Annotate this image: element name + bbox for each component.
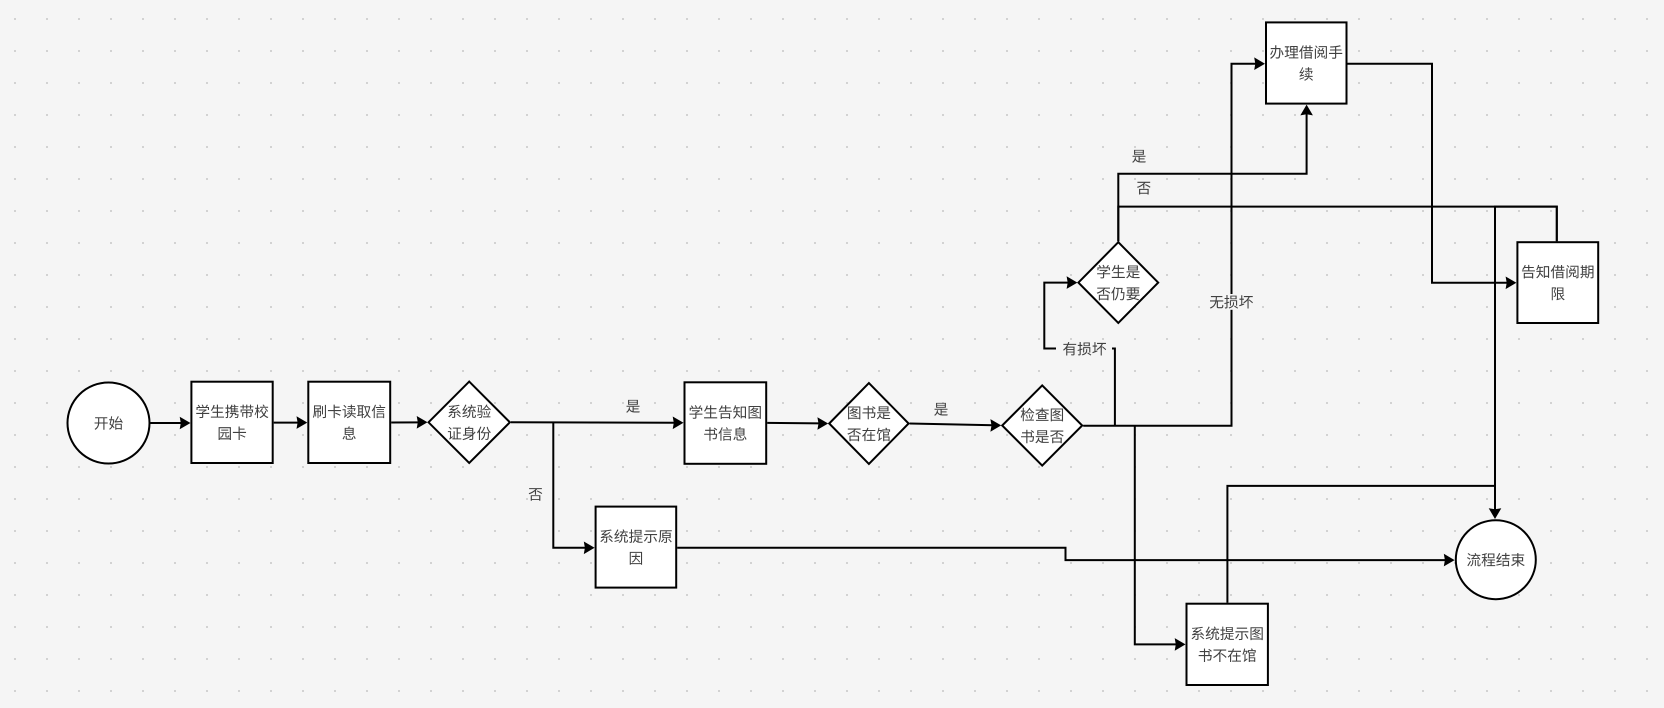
- wire edge 检查图书是否→学生是否仍要 (有损坏): [1044, 276, 1115, 425]
- wire edge 系统验证身份→学生告知图书信息 (是): [511, 417, 684, 430]
- wire edge 检查图书是否→办理借阅手续 (无损坏): [1083, 57, 1265, 425]
- wire edge 办理借阅手续→告知借阅期限: [1348, 64, 1517, 289]
- node process 学生告知图书信息: [685, 382, 767, 464]
- wire edge 告知借阅期限→流程结束: [1489, 207, 1557, 519]
- node process 学生携带校园卡: [191, 382, 272, 463]
- wire edge 刷卡读取信息→系统验证身份: [391, 416, 427, 429]
- node decision 图书是否在馆: [829, 383, 908, 464]
- node process 办理借阅手续: [1266, 22, 1347, 103]
- label 否 on edge 系统验证身份→系统提示原因: [529, 488, 543, 501]
- node decision 系统验证身份: [429, 382, 510, 463]
- wire edge 学生是否仍要→办理借阅手续 (是): [1118, 105, 1313, 242]
- node process 刷卡读取信息: [308, 382, 390, 463]
- node process 系统提示原因: [596, 507, 677, 588]
- wire edge 检查图书是否→系统提示图书不在馆: [1135, 426, 1186, 651]
- wire edge 系统提示图书不在馆→流程结束: [1227, 486, 1495, 603]
- label 否 on edge 学生是否仍要→告知借阅期限: [1137, 182, 1151, 195]
- wire edge 学生携带校园卡→刷卡读取信息: [274, 416, 308, 429]
- wire edge 学生告知图书信息→图书是否在馆: [767, 417, 828, 430]
- label 是 on edge 系统验证身份→学生告知图书信息: [626, 400, 640, 413]
- wire edge 开始→学生携带校园卡: [151, 417, 191, 430]
- node process 系统提示图书不在馆: [1187, 604, 1268, 685]
- label 有损坏 on edge 检查图书是否→学生是否仍要: [1056, 341, 1112, 358]
- node start circle 开始: [68, 383, 150, 464]
- wire edge 图书是否在馆→检查图书是否 (是): [910, 419, 1002, 432]
- node decision 学生是否仍要: [1078, 242, 1158, 323]
- node decision 检查图书是否(损坏): [1002, 385, 1082, 465]
- wire edge 系统提示原因→流程结束: [677, 548, 1454, 567]
- node end circle 流程结束: [1456, 520, 1536, 599]
- node process 告知借阅期限: [1517, 242, 1598, 323]
- wire edge 学生是否仍要→告知借阅期限 (否): [1118, 207, 1557, 242]
- label 是 on edge 学生是否仍要→办理借阅手续: [1132, 150, 1146, 163]
- label 无损坏 on edge 检查图书是否→办理借阅手续: [1208, 294, 1256, 310]
- label 是 on edge 图书是否在馆→检查图书是否: [934, 403, 948, 416]
- wire edge 系统验证身份→系统提示原因 (否): [553, 422, 594, 554]
